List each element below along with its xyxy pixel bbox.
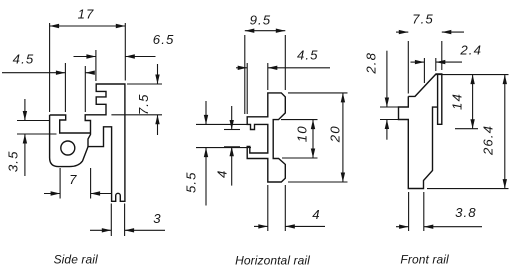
- svg-text:2.4: 2.4: [459, 42, 482, 57]
- svg-text:4: 4: [312, 207, 320, 222]
- svg-text:3: 3: [153, 211, 161, 226]
- svg-text:6.5: 6.5: [153, 32, 175, 47]
- svg-text:7.5: 7.5: [412, 11, 434, 26]
- svg-text:Side rail: Side rail: [54, 252, 98, 266]
- svg-text:4.5: 4.5: [13, 51, 35, 66]
- svg-text:20: 20: [327, 125, 342, 143]
- svg-text:5.5: 5.5: [183, 171, 198, 193]
- svg-text:4: 4: [215, 170, 230, 178]
- svg-text:4.5: 4.5: [297, 47, 319, 62]
- svg-text:3.5: 3.5: [5, 150, 20, 172]
- svg-text:7: 7: [69, 172, 77, 187]
- svg-text:10: 10: [294, 125, 309, 142]
- svg-text:17: 17: [78, 6, 95, 21]
- svg-text:3.8: 3.8: [455, 205, 477, 220]
- svg-text:Horizontal rail: Horizontal rail: [235, 254, 310, 268]
- svg-text:7.5: 7.5: [136, 93, 151, 115]
- svg-text:26.4: 26.4: [480, 125, 495, 156]
- svg-text:9.5: 9.5: [250, 12, 272, 27]
- svg-text:2.8: 2.8: [363, 52, 378, 75]
- svg-text:Front rail: Front rail: [400, 252, 449, 266]
- svg-text:14: 14: [450, 93, 465, 110]
